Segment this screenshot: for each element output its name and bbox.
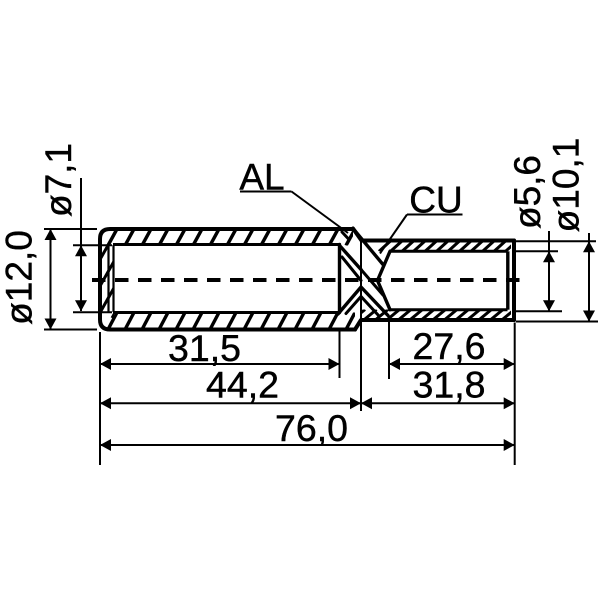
svg-text:ø5,6: ø5,6 (507, 155, 548, 229)
svg-text:CU: CU (409, 180, 462, 221)
svg-text:ø7,1: ø7,1 (38, 143, 79, 217)
svg-text:31,8: 31,8 (413, 363, 486, 405)
svg-text:76,0: 76,0 (275, 407, 348, 449)
svg-text:AL: AL (239, 157, 284, 198)
svg-text:44,2: 44,2 (206, 363, 279, 405)
svg-text:27,6: 27,6 (413, 325, 486, 367)
svg-text:ø10,1: ø10,1 (546, 138, 587, 233)
svg-text:ø12,0: ø12,0 (0, 230, 40, 325)
